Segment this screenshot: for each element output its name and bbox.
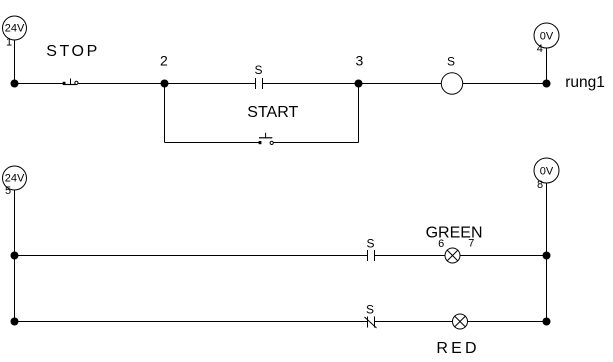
svg-text:5: 5 xyxy=(5,185,11,197)
wire xyxy=(468,321,547,323)
wire xyxy=(359,83,442,85)
wire xyxy=(460,255,547,257)
lamp RED xyxy=(453,314,468,329)
power supply 0V (top right) xyxy=(534,23,559,48)
wire xyxy=(165,142,260,144)
wire xyxy=(546,183,548,322)
svg-text:0V: 0V xyxy=(540,31,554,43)
wire xyxy=(78,83,164,85)
svg-text:S: S xyxy=(447,55,455,69)
svg-text:8: 8 xyxy=(537,179,543,191)
contact NO S (green lamp rung) xyxy=(366,236,374,261)
node 3 xyxy=(355,53,364,88)
power supply 0V (bottom right) xyxy=(534,158,559,183)
svg-text:rung1: rung1 xyxy=(565,74,605,91)
wire xyxy=(273,142,358,144)
svg-text:2: 2 xyxy=(160,53,168,69)
node junction right rail lamp rung xyxy=(543,252,551,260)
wire xyxy=(263,83,359,85)
power supply +24V (top left) xyxy=(3,16,27,40)
pushbutton NC STOP xyxy=(63,79,78,86)
svg-text:START: START xyxy=(247,104,298,121)
svg-text:0V: 0V xyxy=(540,166,554,178)
svg-text:24V: 24V xyxy=(5,23,25,35)
node junction left rail bottom rung xyxy=(11,318,19,326)
svg-text:S: S xyxy=(366,302,374,316)
wire xyxy=(14,40,16,84)
wire xyxy=(164,84,166,143)
contact NC S (red lamp rung) xyxy=(365,302,377,328)
node junction right rail bottom rung xyxy=(543,318,551,326)
node 2 xyxy=(160,53,169,88)
svg-text:STOP: STOP xyxy=(46,43,100,60)
wire xyxy=(15,321,368,323)
wire xyxy=(358,84,360,143)
svg-text:7: 7 xyxy=(468,237,474,249)
svg-text:S: S xyxy=(366,236,374,250)
wire xyxy=(15,255,368,257)
lamp GREEN xyxy=(445,248,460,263)
wire xyxy=(165,83,256,85)
wire xyxy=(15,83,64,85)
pushbutton NO START xyxy=(259,133,274,145)
svg-text:6: 6 xyxy=(438,238,444,250)
svg-text:4: 4 xyxy=(537,43,543,55)
wire xyxy=(546,48,548,84)
node junction left rail lamp rung xyxy=(11,252,19,260)
svg-text:1: 1 xyxy=(6,37,12,49)
node junction right rail rung1 xyxy=(543,80,551,88)
wire xyxy=(463,83,547,85)
svg-text:S: S xyxy=(254,63,262,77)
node junction left rail rung1 xyxy=(11,80,19,88)
power supply +24V (bottom left) xyxy=(3,166,27,190)
contact NO S (seal-in, rung1) xyxy=(254,63,262,89)
wire xyxy=(14,190,16,322)
svg-text:RED: RED xyxy=(436,340,479,357)
wire xyxy=(375,255,446,257)
wire xyxy=(375,321,453,323)
svg-text:3: 3 xyxy=(356,53,364,69)
coil S (relay coil, rung1) xyxy=(441,55,462,95)
svg-text:24V: 24V xyxy=(5,173,25,185)
